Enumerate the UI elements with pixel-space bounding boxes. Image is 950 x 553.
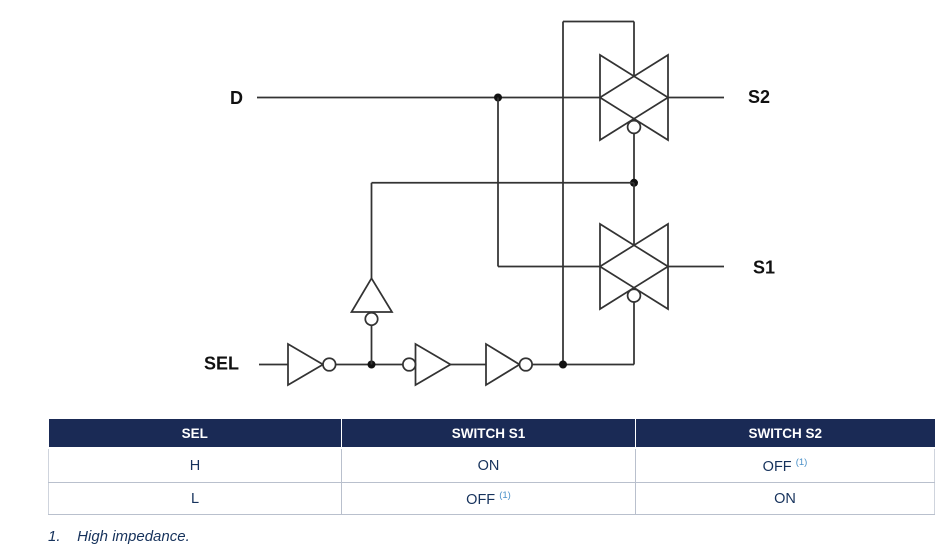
svg-text:S1: S1 — [753, 258, 775, 278]
junction dot A net — [630, 179, 638, 187]
inverter up (bubble input) — [352, 278, 393, 325]
inverter 1 — [288, 344, 336, 385]
inverter 3 — [486, 344, 532, 385]
wire D branch to S1 — [498, 266, 600, 268]
wire left vertical (B net) — [562, 22, 564, 365]
transmission gate switch S1 — [600, 224, 668, 309]
bubble S2 bottom control — [628, 121, 641, 134]
junction dot B net — [559, 361, 567, 369]
wire inv-up output — [371, 183, 373, 278]
inverter 2 (bubble input) — [403, 344, 451, 385]
footnote 1 — [48, 528, 190, 545]
wire D horizontal — [257, 97, 600, 99]
wire S1 output — [668, 266, 724, 268]
wire S2 bubble down — [633, 133, 635, 182]
junction dot SEL-bar node — [368, 361, 376, 369]
wire A net horizontal — [372, 182, 635, 184]
svg-text:S2: S2 — [748, 87, 770, 107]
junction dot on D line — [494, 94, 502, 102]
svg-text:D: D — [230, 88, 243, 108]
wire SEL input — [259, 364, 288, 366]
wire S2 top control — [633, 22, 635, 77]
svg-text:SEL: SEL — [204, 353, 239, 373]
wire D junction down — [497, 98, 499, 267]
wire up branch — [371, 325, 373, 364]
wire S2 output — [668, 97, 724, 99]
bubble S1 bottom control — [628, 289, 641, 302]
wire inv2 to inv3 — [451, 364, 487, 366]
wire A to S1 top control — [633, 183, 635, 246]
wire inv1 to node — [336, 364, 403, 366]
truth table — [48, 419, 935, 515]
transmission gate switch S2 — [600, 55, 668, 140]
wire S1 bubble down — [633, 302, 635, 365]
wire top horizontal — [563, 21, 634, 23]
wire B net horizontal — [531, 364, 634, 366]
